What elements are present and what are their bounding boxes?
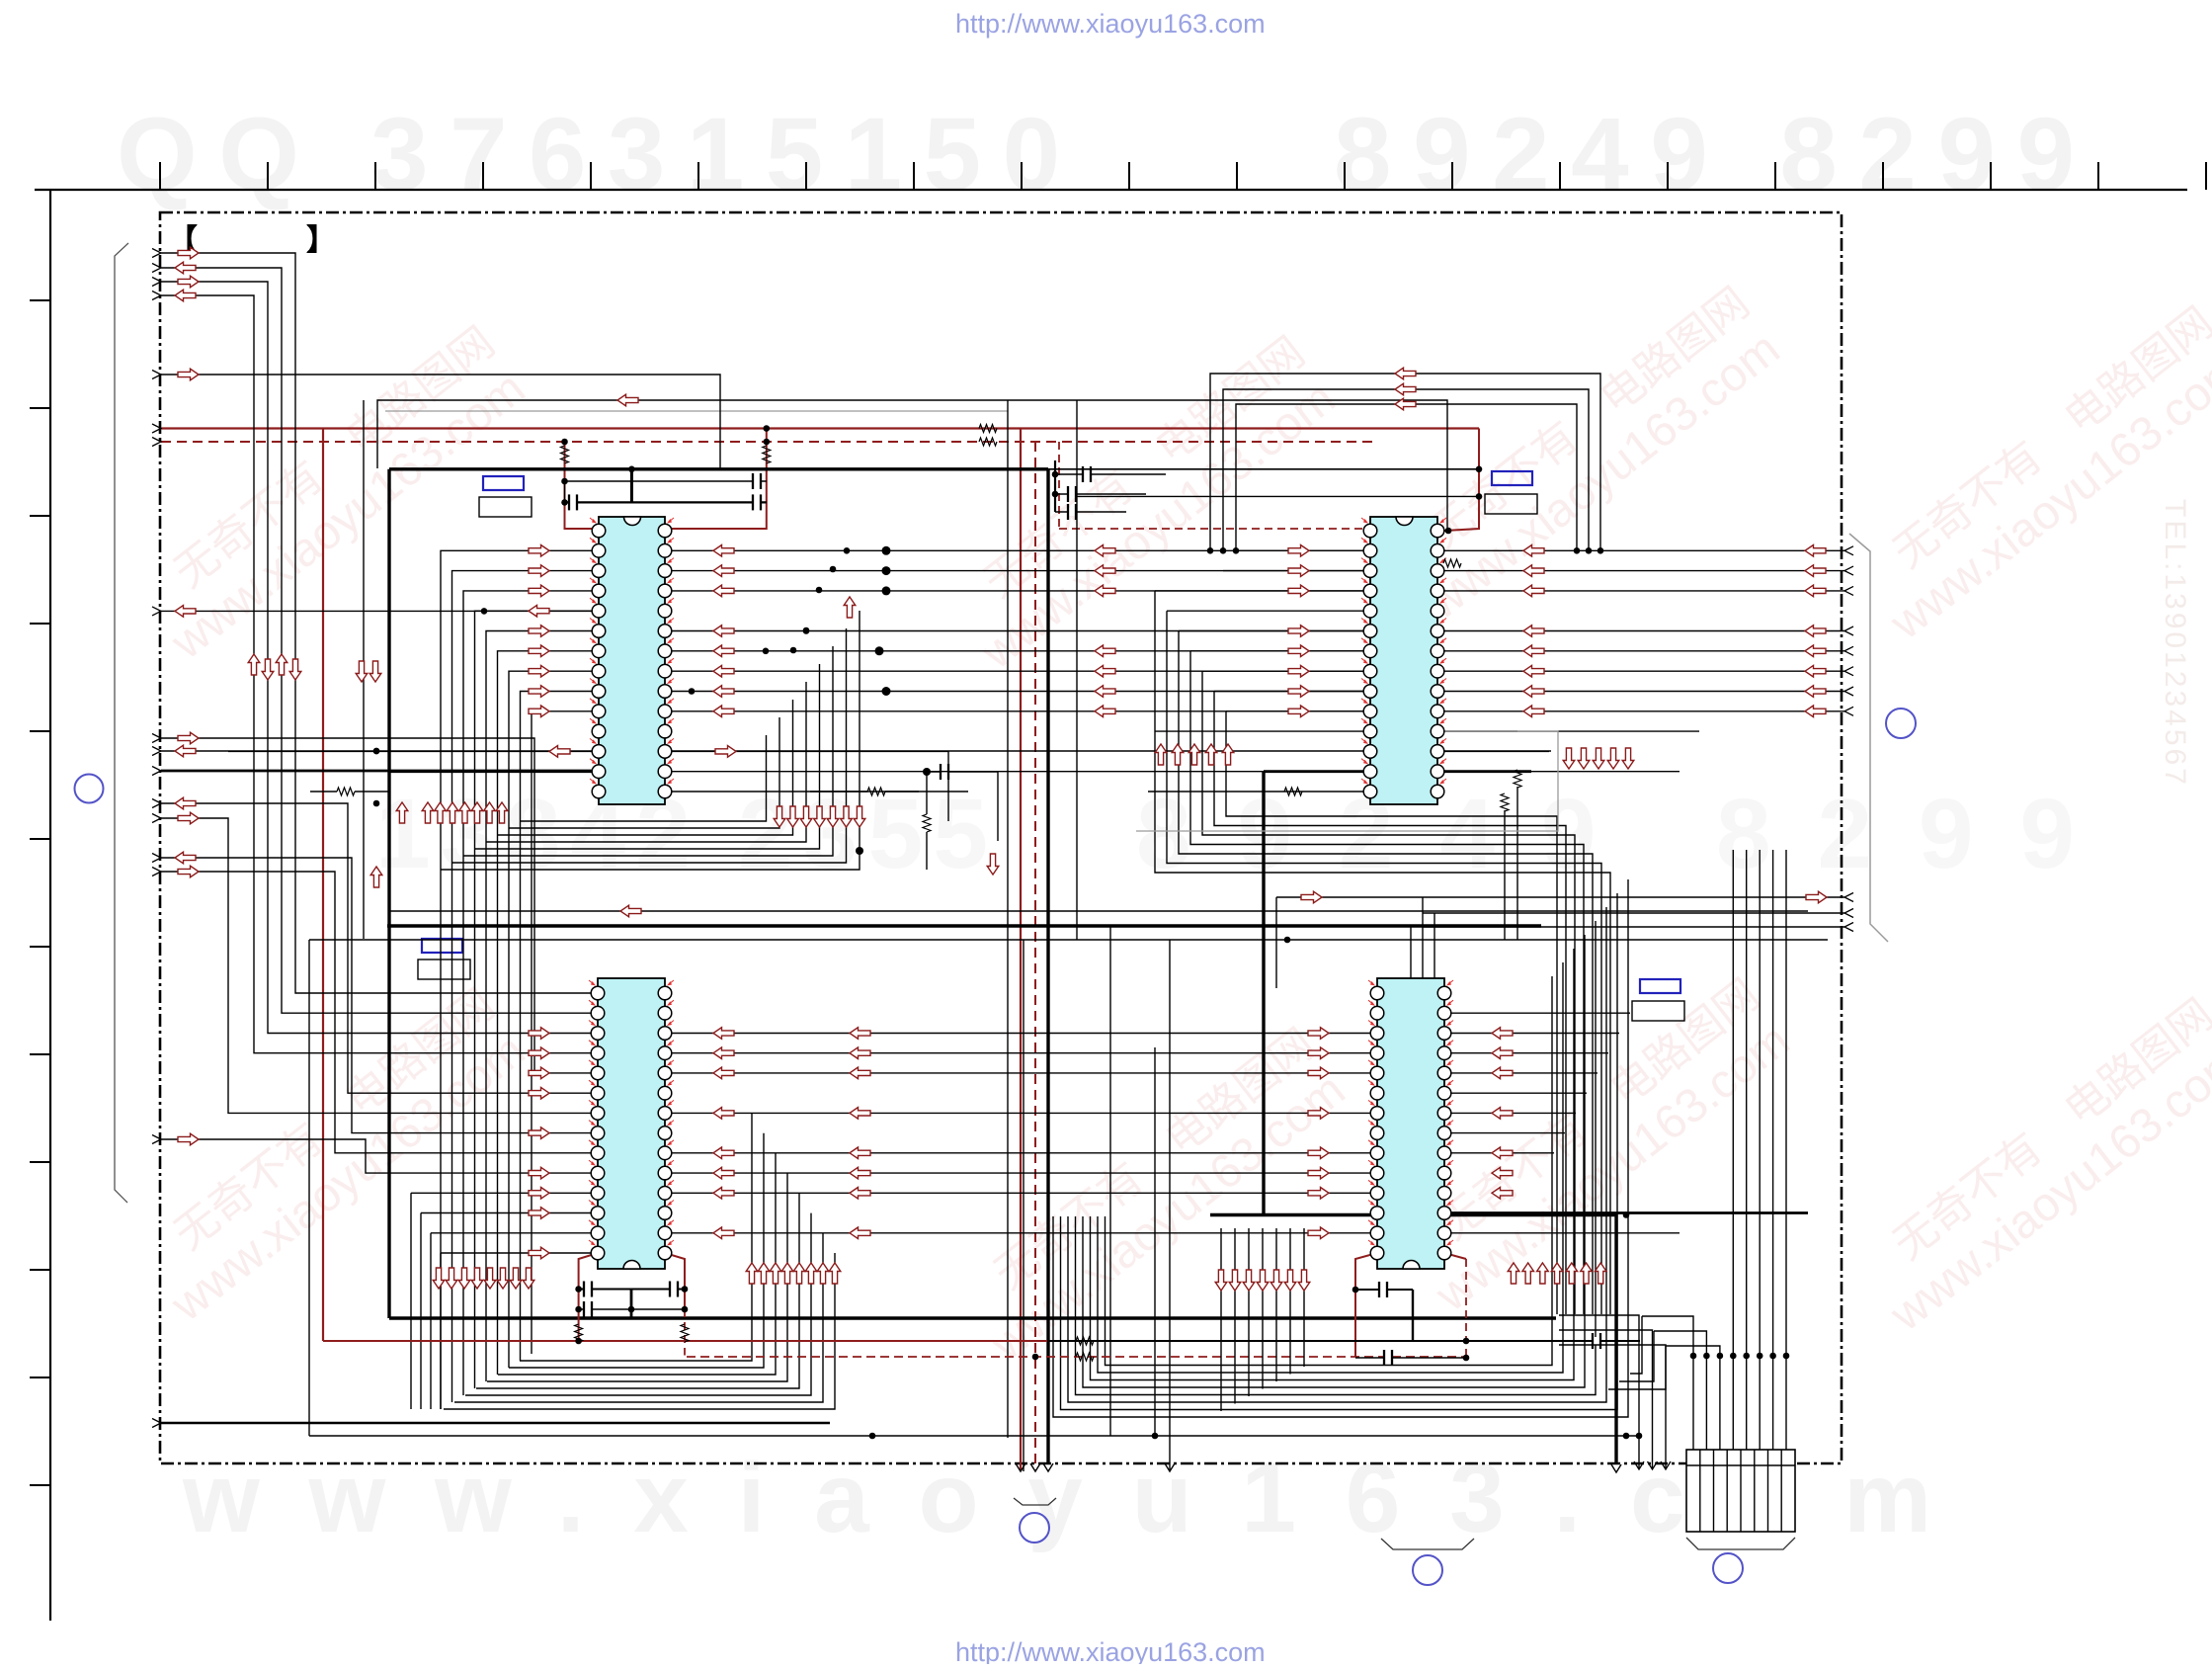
signal arrow bbox=[1607, 748, 1619, 769]
signal arrow bbox=[1492, 1188, 1513, 1200]
signal arrow bbox=[850, 1028, 870, 1040]
wire cap mid vertical bbox=[630, 1290, 633, 1318]
signal arrow bbox=[178, 276, 199, 288]
signal arrow bbox=[1308, 1147, 1329, 1159]
node stub out bbox=[1844, 707, 1853, 715]
part label (black) bbox=[1632, 1001, 1684, 1021]
svg-text:www.xiaoyu163.com: www.xiaoyu163.com bbox=[182, 1443, 1931, 1553]
node stub out bbox=[1844, 586, 1853, 595]
bus thick top bbox=[389, 467, 1048, 470]
node junctions bbox=[869, 1433, 876, 1440]
signal arrow bbox=[529, 605, 549, 617]
signal arrow bbox=[1270, 1270, 1282, 1291]
signal arrow bbox=[178, 866, 199, 877]
node input stub bbox=[152, 854, 161, 863]
wire input row 379 bbox=[161, 375, 720, 469]
signal arrow bbox=[1395, 398, 1416, 410]
signal arrow bbox=[829, 1263, 841, 1284]
signal arrow bbox=[713, 1147, 734, 1159]
wire U3 left stubs bbox=[411, 1192, 598, 1194]
signal arrow bbox=[850, 1047, 870, 1059]
part label (blue) bbox=[1640, 979, 1680, 993]
node junction bbox=[1769, 1353, 1776, 1360]
signal arrow bbox=[713, 1067, 734, 1079]
node junction bbox=[1757, 1353, 1763, 1360]
signal arrow bbox=[529, 1028, 549, 1040]
part label (blue) bbox=[422, 939, 462, 953]
bus thick U2 row13 bbox=[1264, 770, 1370, 773]
capacitor C10 cluster bbox=[927, 771, 998, 773]
signal arrow bbox=[369, 661, 381, 682]
signal arrow bbox=[529, 1067, 549, 1079]
signal arrow bbox=[715, 746, 736, 758]
signal arrow bbox=[987, 854, 999, 875]
signal arrow bbox=[529, 645, 549, 657]
resistor R12 bbox=[923, 814, 931, 832]
signal arrow bbox=[370, 867, 382, 887]
signal arrow bbox=[510, 1268, 522, 1289]
wire border-crossing drops bbox=[1559, 1315, 1639, 1469]
wire red-dashed U2 loop bbox=[1058, 442, 1060, 529]
node junction bbox=[1717, 1353, 1724, 1360]
node input stub bbox=[152, 607, 161, 616]
signal arrow bbox=[1308, 1167, 1329, 1179]
signal arrow bbox=[447, 802, 458, 823]
wire center verticals bbox=[1007, 400, 1009, 1438]
wire loops over U2 bbox=[1210, 374, 1600, 550]
signal arrow bbox=[178, 369, 199, 380]
signal arrow bbox=[1578, 748, 1590, 769]
resistor R7 bbox=[337, 788, 355, 795]
wire U2 left fan bbox=[1155, 590, 1370, 592]
signal arrow bbox=[1622, 748, 1634, 769]
signal arrow bbox=[793, 1263, 805, 1284]
signal arrow bbox=[713, 645, 734, 657]
signal arrow bbox=[713, 626, 734, 637]
bracket bottom center bbox=[1014, 1498, 1056, 1505]
bracket bottom right-mid bbox=[1381, 1539, 1474, 1549]
signal arrow bbox=[1288, 626, 1309, 637]
signal arrow bbox=[1593, 748, 1604, 769]
wire red U2 loop bbox=[1444, 429, 1479, 532]
wire U2 row12 right bbox=[1437, 750, 1549, 752]
signal arrow bbox=[1551, 1263, 1563, 1284]
signal arrow bbox=[1805, 545, 1826, 557]
resistor R8 bbox=[1443, 559, 1461, 567]
bus thick left box edge bbox=[387, 469, 390, 1318]
signal arrow bbox=[1222, 744, 1234, 765]
signal arrow bbox=[1284, 1270, 1296, 1291]
signal arrow bbox=[1095, 545, 1115, 557]
signal arrow bbox=[1095, 665, 1115, 677]
capacitor C7 bbox=[1355, 1289, 1413, 1291]
bus thick vertical 1279 bbox=[1262, 772, 1265, 1215]
signal arrow bbox=[1288, 665, 1309, 677]
IC U1 bbox=[590, 517, 674, 804]
signal arrow bbox=[787, 806, 799, 827]
signal arrow bbox=[356, 661, 368, 682]
signal arrow bbox=[774, 806, 785, 827]
signal arrow bbox=[1155, 744, 1167, 765]
signal arrow bbox=[1243, 1270, 1255, 1291]
signal arrow bbox=[529, 1188, 549, 1200]
wire U2 row11 left bbox=[1155, 730, 1370, 732]
signal arrow bbox=[1308, 1188, 1329, 1200]
reference circle bbox=[1020, 1513, 1049, 1543]
bus thick bottom input bbox=[161, 1422, 830, 1425]
svg-text:】: 】 bbox=[306, 224, 336, 257]
signal arrow bbox=[178, 732, 199, 744]
bus thick mid bbox=[387, 924, 1541, 927]
part label (black) bbox=[479, 497, 532, 517]
signal arrow bbox=[1805, 686, 1826, 698]
signal arrow bbox=[529, 1167, 549, 1179]
signal arrow bbox=[484, 802, 496, 823]
signal arrow bbox=[529, 1127, 549, 1139]
ruler left ticks bbox=[30, 300, 50, 1485]
signal arrow bbox=[1523, 626, 1544, 637]
capacitor C9 bbox=[1355, 1357, 1466, 1359]
wire long bottom bbox=[309, 1435, 1640, 1437]
wire input row 618 bbox=[161, 610, 599, 612]
signal arrow bbox=[471, 802, 483, 823]
net VCC red bus (solid) bbox=[161, 427, 1479, 429]
ruler left line bbox=[49, 190, 51, 1621]
signal arrow bbox=[248, 654, 260, 675]
signal arrow bbox=[529, 665, 549, 677]
signal arrow bbox=[713, 1108, 734, 1120]
node junction bbox=[1730, 1353, 1737, 1360]
node input stub bbox=[152, 371, 161, 379]
signal arrow bbox=[459, 802, 471, 823]
signal arrow bbox=[850, 1227, 870, 1239]
signal arrow bbox=[854, 806, 865, 827]
signal arrow bbox=[1805, 626, 1826, 637]
signal arrow bbox=[1288, 545, 1309, 557]
signal arrow bbox=[1395, 383, 1416, 395]
resistor R13 bbox=[867, 788, 885, 795]
signal arrow bbox=[1492, 1108, 1513, 1120]
signal arrow bbox=[746, 1263, 758, 1284]
signal arrow bbox=[1288, 706, 1309, 717]
signal arrow bbox=[1523, 665, 1544, 677]
reference circle left bbox=[75, 775, 104, 803]
signal arrow bbox=[529, 1247, 549, 1259]
part label (black) bbox=[1485, 494, 1537, 514]
signal arrow bbox=[396, 802, 408, 823]
bus thick lower bbox=[389, 1316, 1556, 1319]
signal arrow bbox=[1308, 1067, 1329, 1079]
signal arrow bbox=[1095, 686, 1115, 698]
signal arrow bbox=[1523, 686, 1544, 698]
node stub out bbox=[1844, 667, 1853, 676]
wire cap verticals bbox=[564, 481, 566, 502]
node input stub bbox=[152, 799, 161, 808]
signal arrow bbox=[1288, 565, 1309, 577]
resistor R6 bbox=[681, 1324, 689, 1342]
signal arrow bbox=[175, 745, 196, 757]
signal arrow bbox=[1308, 1227, 1329, 1239]
capacitor C8 bbox=[1531, 1340, 1640, 1342]
wire gray over U1 bbox=[385, 410, 1008, 412]
wire bottom bundle right bbox=[1053, 879, 1628, 1417]
wire red vertical left bbox=[322, 429, 324, 1342]
signal arrow bbox=[1522, 1263, 1534, 1284]
signal arrow bbox=[1508, 1263, 1519, 1284]
node stub out bbox=[1844, 546, 1853, 555]
resistor R10 bbox=[1437, 730, 1517, 732]
node input stub bbox=[152, 868, 161, 876]
signal arrow bbox=[529, 1047, 549, 1059]
signal arrow bbox=[1805, 585, 1826, 597]
signal arrow bbox=[1215, 1270, 1227, 1291]
wire red center vertical bbox=[1020, 429, 1022, 1472]
signal arrow bbox=[1492, 1167, 1513, 1179]
signal arrow bbox=[850, 1167, 870, 1179]
wire arrow end bbox=[1611, 1464, 1621, 1472]
signal arrow bbox=[713, 565, 734, 577]
wire data rows top bbox=[665, 549, 1844, 551]
signal arrow bbox=[713, 686, 734, 698]
signal arrow bbox=[529, 1087, 549, 1099]
signal arrow bbox=[713, 1167, 734, 1179]
signal arrow bbox=[471, 1268, 483, 1289]
wire mid verticals bbox=[308, 940, 310, 1436]
signal arrow bbox=[289, 659, 301, 680]
wire U4 left drops bbox=[1220, 1228, 1222, 1411]
signal arrow bbox=[1229, 1270, 1241, 1291]
signal arrow bbox=[850, 1108, 870, 1120]
signal arrow bbox=[484, 1268, 496, 1289]
net VDD red bus (dashed) bbox=[161, 441, 1373, 443]
signal arrow bbox=[1805, 565, 1826, 577]
signal arrow bbox=[844, 597, 856, 618]
node junction bbox=[1690, 1353, 1697, 1360]
wire U2 rows into loops bbox=[1236, 549, 1370, 551]
node input stub bbox=[152, 249, 161, 258]
signal arrow bbox=[850, 1067, 870, 1079]
svg-text:http://www.xiaoyu163.com: http://www.xiaoyu163.com bbox=[955, 9, 1266, 39]
signal arrow bbox=[1595, 1263, 1606, 1284]
node junction bbox=[1783, 1353, 1790, 1360]
svg-text:TEL:13901234567: TEL:13901234567 bbox=[2159, 499, 2191, 788]
signal arrow bbox=[713, 1028, 734, 1040]
signal arrow bbox=[713, 706, 734, 717]
wire data rows bottom bbox=[665, 1033, 1377, 1035]
signal arrow bbox=[800, 806, 812, 827]
node stub out bbox=[1844, 626, 1853, 635]
signal arrow bbox=[617, 394, 638, 406]
signal arrow bbox=[1188, 744, 1200, 765]
part label (black) bbox=[418, 960, 470, 979]
signal arrow bbox=[549, 746, 570, 758]
wire red U4 bottom loop bbox=[1355, 1253, 1377, 1357]
wire U4 right fan bbox=[1444, 1012, 1630, 1014]
signal arrow bbox=[758, 1263, 770, 1284]
signal arrow bbox=[1805, 706, 1826, 717]
node stub VCC bbox=[152, 424, 161, 433]
capacitor C2 row bbox=[565, 501, 768, 503]
bus thick center vertical bbox=[1046, 469, 1049, 1463]
signal arrow bbox=[435, 802, 447, 823]
resistor R4 bbox=[763, 446, 771, 463]
wire row 502 bbox=[1077, 495, 1479, 497]
part label (blue) bbox=[1492, 471, 1532, 485]
signal arrow bbox=[1523, 545, 1544, 557]
signal arrow bbox=[458, 1268, 470, 1289]
signal arrow bbox=[817, 1263, 829, 1284]
signal arrow bbox=[175, 797, 196, 809]
part label (blue) bbox=[483, 476, 524, 490]
wire red-dashed center vertical bbox=[1034, 442, 1036, 1471]
wire red U3 bottom loop bbox=[579, 1253, 598, 1341]
resistor R3 bbox=[561, 446, 569, 463]
node stub out bbox=[1844, 646, 1853, 655]
left margin bracket bbox=[115, 243, 128, 1203]
capacitor C3 cluster bbox=[1055, 473, 1166, 475]
resistor R2 bbox=[979, 438, 997, 446]
signal arrow bbox=[1492, 1067, 1513, 1079]
signal arrow bbox=[446, 1268, 457, 1289]
signal arrow bbox=[1205, 744, 1217, 765]
board outline (dash-dot frame) bbox=[160, 212, 1842, 1463]
signal arrow bbox=[178, 812, 199, 824]
wire red-dashed low bus bbox=[687, 1356, 1466, 1358]
right margin bracket bbox=[1849, 534, 1888, 942]
node stub VDD bbox=[152, 438, 161, 447]
signal arrow bbox=[850, 1188, 870, 1200]
signal arrow bbox=[1095, 645, 1115, 657]
signal arrow bbox=[713, 1047, 734, 1059]
signal arrow bbox=[1523, 585, 1544, 597]
signal arrow bbox=[1492, 1047, 1513, 1059]
wire red U1 loop bbox=[565, 442, 600, 531]
signal arrow bbox=[1095, 565, 1115, 577]
signal arrow bbox=[841, 806, 853, 827]
signal arrow bbox=[1301, 891, 1322, 903]
signal arrow bbox=[529, 545, 549, 557]
node input stub bbox=[152, 278, 161, 287]
signal arrow bbox=[713, 665, 734, 677]
signal arrow bbox=[620, 905, 641, 917]
signal arrow bbox=[262, 659, 274, 680]
wire mid low black bbox=[1047, 1340, 1531, 1342]
signal arrow bbox=[1581, 1263, 1593, 1284]
signal arrow bbox=[529, 706, 549, 717]
node input stub bbox=[152, 814, 161, 823]
signal arrow bbox=[1492, 1147, 1513, 1159]
signal arrow bbox=[175, 852, 196, 864]
signal arrow bbox=[175, 290, 196, 301]
wire mid row 922 bbox=[389, 910, 1808, 912]
signal arrow bbox=[713, 585, 734, 597]
wire bundle A bbox=[161, 253, 598, 993]
ruler top ticks bbox=[160, 162, 2206, 190]
node stub out bbox=[1844, 687, 1853, 696]
bus thick right low bbox=[1210, 1215, 1616, 1464]
capacitor C6 row bbox=[579, 1308, 685, 1310]
wire loop over U1 bbox=[377, 400, 1447, 531]
reference circle bbox=[1413, 1555, 1442, 1585]
signal arrow bbox=[1523, 706, 1544, 717]
wire mid row 951 bbox=[309, 939, 1828, 941]
signal arrow bbox=[770, 1263, 781, 1284]
wire bottom bundle left bbox=[444, 1253, 835, 1409]
signal arrow bbox=[1805, 665, 1826, 677]
wire arrow ends bbox=[1016, 1463, 1025, 1471]
signal arrow bbox=[1298, 1270, 1310, 1291]
signal arrow bbox=[713, 545, 734, 557]
bracket under connector bbox=[1686, 1538, 1795, 1549]
IC U4 bbox=[1368, 978, 1453, 1269]
wire U1 row13 bbox=[665, 791, 919, 793]
signal arrow bbox=[1563, 748, 1575, 769]
svg-text:13842 2355: 13842 2355 bbox=[375, 779, 988, 889]
node dots bbox=[561, 478, 568, 485]
signal arrow bbox=[175, 262, 196, 274]
signal arrow bbox=[496, 802, 508, 823]
capacitor C5 row bbox=[579, 1289, 685, 1291]
wire under-U1 loops bbox=[441, 611, 860, 870]
node input stub bbox=[152, 264, 161, 273]
resistor R9 bbox=[1148, 791, 1370, 793]
signal arrow bbox=[1805, 645, 1826, 657]
wire U4 long rows bbox=[1444, 1211, 1808, 1214]
ruler top line bbox=[35, 189, 2187, 191]
resistor R11 bbox=[1501, 793, 1509, 811]
wire bundle A2 bbox=[161, 738, 598, 1073]
wire right mid rows bbox=[1276, 896, 1844, 898]
signal arrow bbox=[850, 1147, 870, 1159]
signal arrow bbox=[805, 1263, 817, 1284]
signal arrow bbox=[1095, 585, 1115, 597]
signal arrow bbox=[178, 247, 199, 259]
signal arrow bbox=[1492, 1028, 1513, 1040]
signal arrow bbox=[1308, 1028, 1329, 1040]
resistor R1 bbox=[979, 425, 997, 433]
signal arrow bbox=[422, 802, 434, 823]
signal arrow bbox=[433, 1268, 445, 1289]
node input stub bbox=[152, 734, 161, 743]
connector pins wires bbox=[1692, 1356, 1694, 1450]
signal arrow bbox=[175, 606, 196, 618]
signal arrow bbox=[529, 686, 549, 698]
node input stub bbox=[152, 747, 161, 756]
signal arrow bbox=[1288, 645, 1309, 657]
signal arrow bbox=[1523, 565, 1544, 577]
IC U2 bbox=[1361, 517, 1446, 804]
signal arrow bbox=[1288, 585, 1309, 597]
node junction bbox=[1703, 1353, 1710, 1360]
signal arrow bbox=[1095, 706, 1115, 717]
wire U1 row11 loop bbox=[228, 750, 599, 752]
signal arrow bbox=[1566, 1263, 1578, 1284]
svg-text:89249 8299: 89249 8299 bbox=[1334, 97, 2075, 212]
signal arrow bbox=[1257, 1270, 1269, 1291]
signal arrow bbox=[529, 1208, 549, 1219]
wire connector risers bbox=[1642, 1316, 1693, 1356]
signal arrow bbox=[529, 626, 549, 637]
reference circle right bbox=[1886, 709, 1916, 738]
signal arrow bbox=[529, 585, 549, 597]
wire red low bus bbox=[323, 1340, 1355, 1342]
capacitor C1 row bbox=[565, 480, 768, 482]
signal arrow bbox=[713, 1227, 734, 1239]
IC U3 bbox=[589, 978, 674, 1269]
svg-text:http://www.xiaoyu163.com: http://www.xiaoyu163.com bbox=[955, 1637, 1266, 1664]
reference circle bbox=[1713, 1553, 1743, 1583]
node input stub bbox=[152, 292, 161, 300]
